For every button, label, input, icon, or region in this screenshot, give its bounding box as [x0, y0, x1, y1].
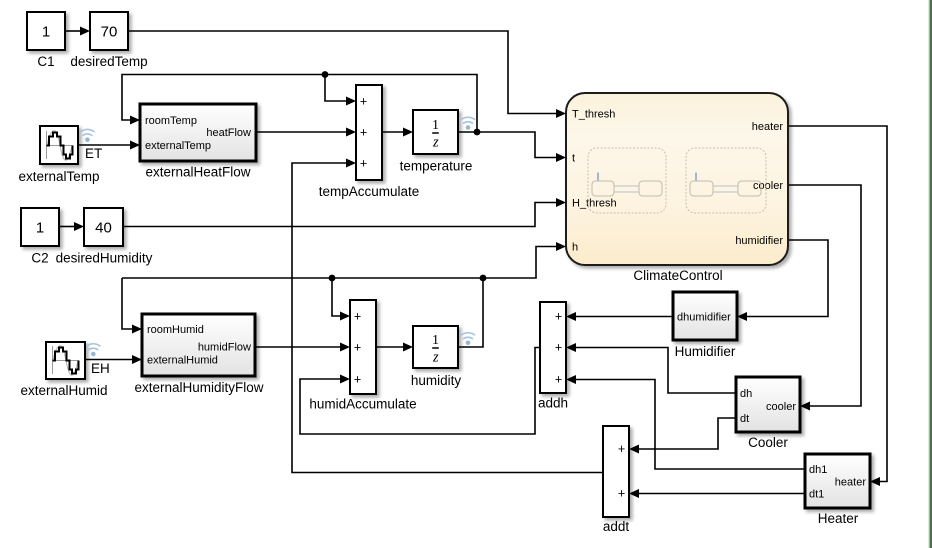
svg-text:+: +	[618, 442, 625, 456]
block ClimateControl chart	[566, 93, 788, 283]
wire humidity feedback line to h input	[122, 247, 557, 279]
svg-text:1: 1	[432, 333, 439, 348]
svg-text:1: 1	[432, 118, 439, 133]
svg-text:heatFlow: heatFlow	[206, 127, 251, 139]
svg-text:cooler: cooler	[753, 180, 783, 192]
svg-text:+: +	[354, 310, 361, 324]
window edge green strip	[929, 0, 930, 548]
svg-text:humidity: humidity	[411, 373, 462, 388]
block C2 constant 1	[21, 208, 59, 266]
wire Cooler dt to addt in1	[638, 418, 736, 449]
svg-text:tempAccumulate: tempAccumulate	[319, 184, 420, 199]
state box 1	[588, 148, 666, 213]
svg-text:H_thresh: H_thresh	[572, 198, 617, 210]
svg-text:externalHumid: externalHumid	[20, 383, 107, 398]
svg-text:Heater: Heater	[818, 511, 859, 526]
svg-text:dh1: dh1	[809, 464, 827, 476]
svg-text:1: 1	[42, 24, 50, 41]
wire temperature feedback (junction to roomTemp)	[122, 75, 477, 133]
svg-text:desiredHumidity: desiredHumidity	[56, 251, 153, 266]
svg-text:+: +	[360, 126, 367, 140]
wire Heater dh1 to addh in3	[575, 380, 805, 470]
svg-text:temperature: temperature	[400, 159, 473, 174]
svg-text:externalTemp: externalTemp	[18, 169, 99, 184]
wireless icon EH	[87, 344, 100, 350]
svg-text:z: z	[432, 135, 439, 151]
svg-text:humidifier: humidifier	[735, 235, 783, 247]
block Heater subsystem	[805, 454, 870, 526]
junction dot humidity line	[480, 275, 487, 282]
svg-text:humidFlow: humidFlow	[198, 342, 251, 354]
svg-text:externalHumidityFlow: externalHumidityFlow	[134, 380, 263, 395]
junction dot on feedback	[322, 71, 329, 78]
wireless icon temperature	[461, 117, 474, 123]
svg-text:dt: dt	[740, 413, 749, 425]
svg-text:externalHumid: externalHumid	[147, 355, 218, 367]
block addt sum	[603, 426, 630, 534]
wire temperature to t input	[458, 132, 557, 158]
svg-text:+: +	[360, 95, 367, 109]
wire humidity output up to h line	[458, 278, 483, 347]
svg-text:externalHeatFlow: externalHeatFlow	[145, 165, 250, 180]
block Cooler subsystem	[736, 377, 800, 450]
svg-text:EH: EH	[91, 361, 110, 376]
svg-text:Humidifier: Humidifier	[675, 344, 736, 359]
wire C1 to desiredTemp	[65, 30, 81, 32]
svg-text:t: t	[572, 153, 575, 165]
block externalHumid source	[20, 342, 107, 398]
svg-text:z: z	[432, 350, 439, 366]
svg-text:+: +	[618, 487, 625, 501]
wireless icon ET	[81, 129, 94, 135]
block temperature unit delay	[400, 110, 473, 174]
wireless icon humidity	[461, 333, 474, 339]
wire C2 to desiredHumidity	[59, 226, 75, 228]
junction dot temperature output	[474, 129, 481, 136]
wire ClimateControl humidifier to Humidifier	[746, 240, 828, 317]
svg-text:addh: addh	[538, 396, 568, 411]
junction dot humid branch	[329, 275, 336, 282]
svg-text:humidAccumulate: humidAccumulate	[309, 397, 416, 412]
wire ClimateControl heater to Heater	[788, 126, 887, 482]
block addh sum	[538, 302, 568, 411]
block Humidifier subsystem	[673, 292, 737, 359]
svg-text:+: +	[555, 341, 562, 355]
svg-text:Cooler: Cooler	[748, 435, 788, 450]
svg-text:dt1: dt1	[809, 489, 824, 501]
block tempAccumulate sum	[319, 85, 420, 199]
wire addh output to humidAccumulate in3	[300, 348, 540, 435]
block desiredTemp constant 70	[70, 12, 147, 69]
wire branch to humidAccumulate in1	[332, 278, 341, 316]
wire externalHumid to externalHumidityFlow	[85, 359, 133, 361]
block externalTemp source	[18, 126, 99, 184]
svg-text:1: 1	[36, 220, 44, 237]
wire humidFlow to humidAccumulate in2	[255, 346, 341, 348]
svg-text:+: +	[555, 373, 562, 387]
wire Cooler dh to addh in2	[575, 348, 736, 394]
wire externalTemp to externalHeatFlow	[78, 144, 131, 146]
svg-text:h: h	[572, 242, 578, 254]
state box 2	[686, 148, 766, 213]
svg-text:desiredTemp: desiredTemp	[70, 54, 147, 69]
svg-text:roomTemp: roomTemp	[145, 115, 197, 127]
svg-text:ET: ET	[85, 146, 102, 161]
wire Humidifier dhumidifier to addh in1	[575, 316, 673, 318]
svg-text:C2: C2	[31, 251, 48, 266]
svg-text:heater: heater	[752, 121, 784, 133]
wire humidAccumulate to humidity	[376, 346, 405, 348]
wire Heater dt1 to addt in2	[638, 493, 805, 495]
wire tempAccumulate to temperature	[382, 131, 404, 133]
svg-text:+: +	[360, 157, 367, 171]
wire humidity feedback to roomHumid	[122, 278, 133, 329]
wire desiredHumidity to H_thresh	[123, 203, 557, 227]
wire branch feedback to tempAccumulate in1	[325, 75, 347, 102]
svg-text:heater: heater	[835, 477, 867, 489]
block externalHeatFlow subsystem	[140, 104, 256, 180]
svg-text:+: +	[555, 310, 562, 324]
wire addt output to tempAccumulate in3	[292, 163, 603, 473]
svg-text:dh: dh	[740, 388, 752, 400]
block humidAccumulate sum	[309, 300, 416, 412]
svg-text:40: 40	[95, 220, 112, 237]
svg-text:roomHumid: roomHumid	[147, 324, 204, 336]
wire desiredTemp to ClimateControl T_thresh	[128, 31, 557, 114]
wire heatFlow to tempAccumulate in2	[256, 131, 347, 133]
svg-text:externalTemp: externalTemp	[145, 140, 211, 152]
block C1 constant 1	[27, 12, 65, 69]
wire ClimateControl cooler to Cooler	[788, 185, 861, 406]
svg-text:cooler: cooler	[766, 401, 796, 413]
block externalHumidityFlow subsystem	[134, 314, 263, 395]
svg-text:T_thresh: T_thresh	[572, 109, 615, 121]
svg-text:addt: addt	[603, 519, 630, 534]
block humidity unit delay	[411, 326, 462, 388]
block desiredHumidity constant 40	[56, 208, 153, 266]
svg-text:+: +	[354, 341, 361, 355]
svg-text:C1: C1	[37, 54, 54, 69]
svg-text:dhumidifier: dhumidifier	[677, 312, 731, 324]
svg-text:+: +	[354, 373, 361, 387]
svg-text:70: 70	[101, 24, 118, 41]
svg-text:ClimateControl: ClimateControl	[633, 268, 722, 283]
